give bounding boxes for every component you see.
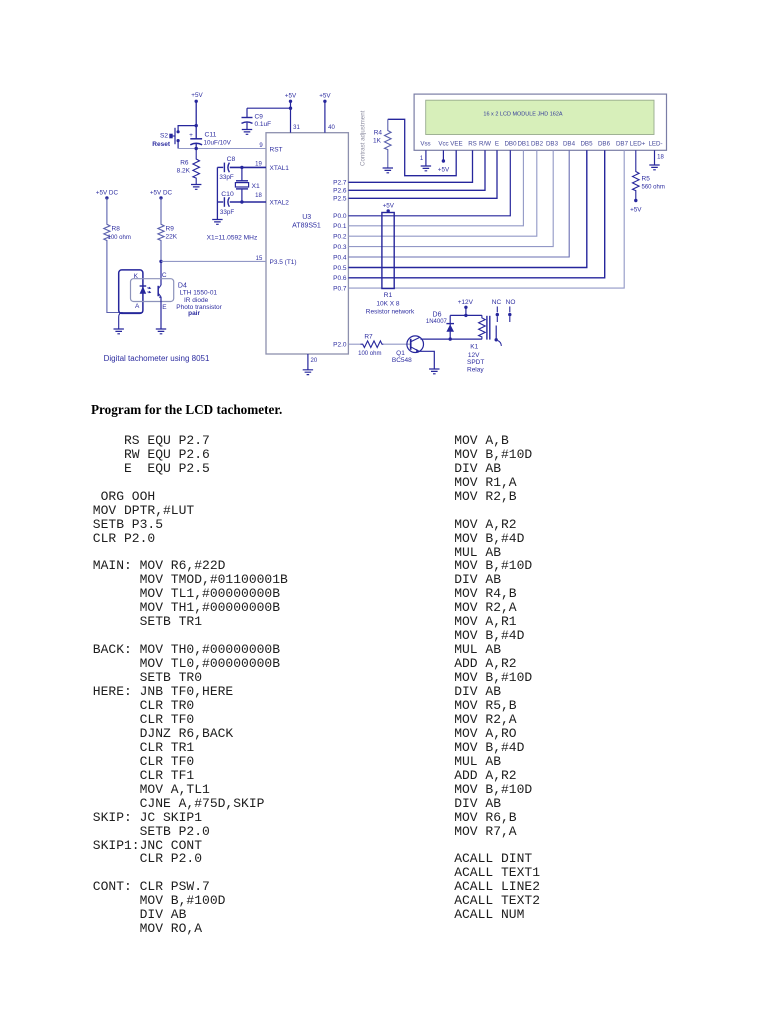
svg-text:X1: X1 — [252, 183, 261, 190]
svg-text:DB6: DB6 — [598, 141, 611, 148]
svg-text:E: E — [495, 141, 499, 148]
svg-text:+5V: +5V — [319, 93, 331, 100]
resistor R8 — [104, 198, 131, 242]
resistor R6 — [177, 149, 200, 185]
svg-text:C10: C10 — [221, 191, 234, 198]
svg-text:C9: C9 — [255, 114, 264, 121]
svg-text:560 ohm: 560 ohm — [642, 185, 665, 191]
svg-text:R8: R8 — [112, 226, 121, 233]
svg-text:DB5: DB5 — [580, 141, 593, 148]
IC U3 AT89S51 body — [266, 133, 348, 354]
capacitor C8 — [224, 163, 229, 173]
svg-text:R5: R5 — [642, 176, 651, 183]
wire C9 to +5V rail — [247, 107, 291, 109]
wire pin 31 — [290, 101, 292, 132]
svg-text:DB3: DB3 — [546, 141, 559, 148]
svg-text:DB1: DB1 — [517, 141, 530, 148]
svg-text:18: 18 — [657, 155, 664, 161]
ground under LED- — [649, 165, 659, 170]
svg-text:33pF: 33pF — [220, 209, 235, 216]
svg-text:DB0: DB0 — [504, 141, 517, 148]
svg-text:D4: D4 — [178, 283, 187, 290]
svg-text:Contrast adjustment: Contrast adjustment — [360, 110, 367, 166]
svg-text:R4: R4 — [374, 130, 383, 137]
wire P0.0 to DB0 — [348, 150, 510, 216]
opto pin labels — [134, 272, 168, 311]
relay K1 coil — [479, 315, 486, 339]
wire Vcc stub — [442, 150, 444, 161]
svg-text:P0.0: P0.0 — [333, 213, 347, 220]
svg-text:1N4007: 1N4007 — [426, 319, 448, 325]
wire P0.1 to DB1 — [348, 150, 523, 226]
svg-text:LTH 1550-01: LTH 1550-01 — [180, 290, 218, 297]
svg-text:K1: K1 — [470, 344, 478, 351]
wire +12V down — [465, 307, 467, 315]
wire LED- to ground — [654, 150, 656, 165]
wire pin 20 to ground — [307, 354, 309, 370]
wire P0.6 to DB6 — [348, 150, 604, 277]
R1 labels — [366, 292, 415, 316]
svg-text:Resistor network: Resistor network — [366, 309, 415, 316]
wire P2.5 to E — [348, 150, 497, 198]
ground under C8 C10 — [212, 220, 222, 225]
ground under opto emitter — [156, 329, 166, 334]
svg-text:Digital tachometer using 8051: Digital tachometer using 8051 — [104, 354, 210, 363]
svg-text:E: E — [162, 304, 167, 311]
resistor R4 — [373, 119, 391, 168]
svg-text:K: K — [134, 273, 139, 280]
svg-text:P0.1: P0.1 — [333, 223, 347, 230]
wire P0.2 to DB2 — [348, 150, 536, 236]
svg-text:XTAL2: XTAL2 — [270, 200, 290, 207]
resistor R7 — [358, 334, 383, 358]
svg-text:+5V: +5V — [285, 93, 297, 100]
svg-text:31: 31 — [293, 125, 300, 131]
wire to pin 15 P3.5 — [161, 260, 266, 262]
D4 labels — [176, 283, 222, 318]
wire P0.7 to DB7 — [348, 150, 624, 288]
resistor R5 — [633, 150, 665, 199]
svg-text:40: 40 — [328, 125, 335, 131]
svg-text:0.1uF: 0.1uF — [255, 121, 272, 128]
IC U3 labels — [292, 214, 321, 230]
svg-text:P0.6: P0.6 — [333, 275, 347, 282]
optocoupler D4 outer box — [119, 270, 143, 314]
svg-text:LED+: LED+ — [630, 141, 646, 148]
pin number labels — [255, 125, 335, 262]
node diode junction — [449, 337, 452, 340]
ground under IC — [303, 370, 313, 375]
svg-text:R9: R9 — [166, 226, 175, 233]
svg-text:Relay: Relay — [467, 367, 484, 374]
wire P0.4 to DB4 — [348, 150, 569, 257]
node XTAL2 crystal junction — [240, 200, 243, 203]
svg-text:R7: R7 — [364, 334, 373, 341]
svg-text:P0.3: P0.3 — [333, 244, 347, 251]
wire P2.7 to RS — [348, 150, 472, 182]
svg-text:20: 20 — [311, 358, 318, 364]
wire Q1 collector to relay — [421, 338, 482, 340]
svg-text:DB7: DB7 — [616, 141, 629, 148]
IR diode inside D4 — [140, 286, 147, 294]
svg-text:100 ohm: 100 ohm — [358, 351, 381, 357]
svg-text:XTAL1: XTAL1 — [270, 165, 290, 172]
ground under opto LED — [114, 329, 124, 334]
wire +5V down through C11 — [195, 101, 197, 138]
svg-text:VEE: VEE — [450, 141, 462, 148]
svg-text:P0.5: P0.5 — [333, 265, 347, 272]
svg-text:1: 1 — [420, 156, 424, 162]
wire P0.3 to DB3 — [348, 150, 553, 246]
light arrows — [147, 287, 150, 293]
svg-text:DB2: DB2 — [531, 141, 544, 148]
svg-text:U3: U3 — [302, 214, 311, 221]
wire Vss to ground — [425, 150, 427, 166]
svg-text:AT89S51: AT89S51 — [292, 223, 321, 230]
svg-text:P2.6: P2.6 — [333, 188, 347, 195]
LCD pin labels — [420, 141, 662, 148]
wire XTAL1 — [217, 166, 266, 168]
svg-text:22K: 22K — [166, 234, 178, 241]
ground under R6 — [191, 185, 201, 190]
resistor network R1 body — [382, 213, 394, 289]
wire relay top — [450, 314, 482, 316]
svg-text:+5V: +5V — [191, 92, 203, 99]
wire P0.5 to DB5 — [348, 150, 586, 267]
svg-text:18: 18 — [255, 193, 262, 199]
phototransistor inside D4 — [158, 285, 161, 298]
wire R8 down — [107, 242, 143, 313]
svg-text:1K: 1K — [373, 138, 382, 145]
ground under Vss — [421, 166, 431, 171]
switch S2 Reset — [152, 128, 179, 148]
capacitor C11 — [189, 132, 232, 149]
svg-text:+5V: +5V — [438, 167, 450, 174]
svg-text:Q1: Q1 — [396, 350, 405, 357]
LCD green screen — [426, 100, 654, 134]
svg-text:16 x 2 LCD MODULE JHD 162A: 16 x 2 LCD MODULE JHD 162A — [483, 112, 562, 118]
svg-text:RST: RST — [270, 147, 283, 154]
node +12V junction — [464, 314, 467, 317]
crystal X1 — [235, 167, 248, 202]
IC pin name labels right — [333, 180, 347, 349]
ground under C9 — [242, 130, 252, 135]
svg-text:C: C — [162, 272, 167, 279]
relay K1 labels — [467, 344, 484, 374]
svg-text:BC548: BC548 — [392, 357, 412, 364]
svg-text:+12V: +12V — [458, 299, 474, 306]
svg-text:10K X 8: 10K X 8 — [376, 301, 400, 308]
node R5 +5V — [634, 199, 637, 202]
svg-text:P0.2: P0.2 — [333, 234, 347, 241]
ground under Q1 — [429, 369, 439, 374]
svg-text:D6: D6 — [433, 311, 442, 318]
svg-text:SPDT: SPDT — [467, 359, 484, 366]
capacitor C10 — [224, 197, 229, 207]
wire opto emitter to ground — [160, 297, 162, 329]
svg-text:C8: C8 — [227, 156, 236, 163]
svg-text:R1: R1 — [384, 292, 393, 299]
node P3.5 junction — [159, 260, 162, 263]
wire pin 40 — [324, 101, 326, 132]
svg-text:+5V DC: +5V DC — [150, 190, 173, 197]
svg-text:X1=11.0592 MHz: X1=11.0592 MHz — [207, 235, 258, 242]
wire to S2 — [178, 126, 196, 132]
svg-text:C11: C11 — [205, 132, 217, 139]
svg-text:P2.7: P2.7 — [333, 180, 347, 187]
svg-text:+5V DC: +5V DC — [96, 190, 119, 197]
svg-text:pair: pair — [188, 310, 200, 317]
transistor Q1 — [407, 336, 424, 353]
svg-text:S2: S2 — [160, 133, 168, 140]
svg-text:+5V: +5V — [630, 207, 642, 214]
svg-text:8.2K: 8.2K — [177, 168, 191, 175]
node XTAL1 crystal junction — [240, 166, 243, 169]
svg-text:NO: NO — [506, 299, 516, 306]
svg-text:33pF: 33pF — [219, 174, 234, 181]
wire P2.6 to R/W — [348, 150, 485, 190]
svg-text:Vss: Vss — [420, 141, 430, 148]
svg-text:10uF/10V: 10uF/10V — [204, 139, 232, 146]
svg-text:P2.0: P2.0 — [333, 342, 347, 349]
LCD module outer body — [414, 94, 666, 150]
svg-text:+: + — [189, 132, 193, 139]
node C9 junction — [289, 107, 292, 110]
wire RST — [178, 148, 266, 150]
svg-text:Vcc: Vcc — [438, 141, 448, 148]
svg-text:RS: RS — [468, 141, 477, 148]
svg-text:R/W: R/W — [479, 141, 491, 148]
svg-text:+5V: +5V — [383, 203, 395, 210]
svg-text:NC: NC — [492, 299, 502, 306]
node S2 top junction — [195, 124, 198, 127]
svg-text:A: A — [135, 303, 140, 310]
svg-text:Reset: Reset — [152, 141, 171, 148]
wire VEE contrast loop — [388, 119, 456, 175]
svg-text:100 ohm: 100 ohm — [108, 235, 131, 241]
node Vcc +5V — [442, 159, 445, 162]
svg-text:P2.5: P2.5 — [333, 196, 347, 203]
svg-text:P0.7: P0.7 — [333, 285, 347, 292]
relay pole — [495, 326, 497, 340]
svg-text:12V: 12V — [468, 352, 480, 359]
wire pigtail to ground — [119, 313, 123, 330]
wire P2.0 — [348, 343, 360, 345]
svg-text:DB4: DB4 — [563, 141, 576, 148]
diode D6 1N4007 — [446, 315, 454, 339]
wire Q1 emitter to ground — [420, 351, 435, 369]
ground under R4 — [383, 168, 393, 173]
wire caps to ground — [216, 167, 218, 219]
resistor R9 — [158, 198, 178, 262]
capacitor C9 — [242, 108, 253, 129]
wire XTAL2 — [217, 201, 266, 203]
wire opto collector — [160, 261, 162, 285]
optocoupler D4 inner box — [131, 279, 174, 302]
node RST junction — [195, 147, 198, 150]
svg-text:LED-: LED- — [648, 141, 662, 148]
svg-text:P3.5 (T1): P3.5 (T1) — [270, 259, 297, 266]
svg-text:P0.4: P0.4 — [333, 254, 347, 261]
wire S2 bottom — [177, 141, 179, 149]
relay core bars — [486, 316, 488, 340]
IC pin name labels left — [270, 147, 297, 267]
wire R7 to Q1 base — [383, 343, 410, 345]
svg-text:R6: R6 — [180, 160, 189, 167]
